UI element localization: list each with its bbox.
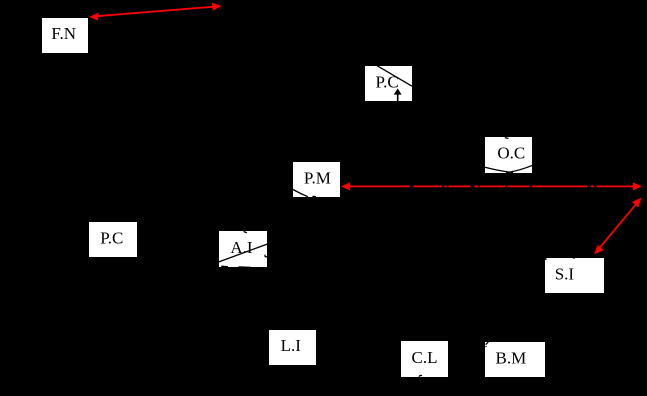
svg-text:O.C: O.C [497,143,525,162]
svg-text:S.I: S.I [555,264,575,283]
svg-text:P.M: P.M [304,168,331,187]
svg-text:F.N: F.N [51,24,76,43]
svg-text:P.C: P.C [376,72,399,91]
svg-text:L.I: L.I [281,336,302,355]
svg-text:B.M: B.M [496,348,527,367]
svg-text:P.C: P.C [100,228,123,247]
svg-text:A.I: A.I [230,238,253,257]
svg-text:C.L: C.L [412,348,438,367]
